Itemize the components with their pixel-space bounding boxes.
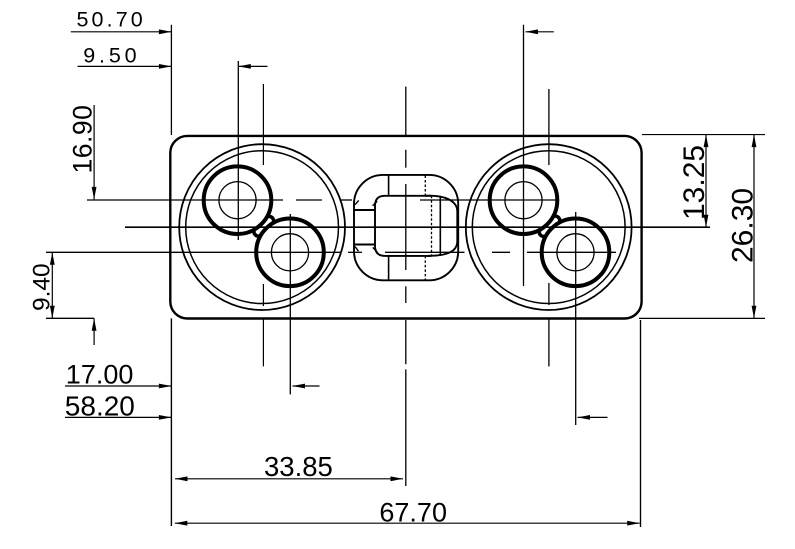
- svg-text:50.70: 50.70: [77, 8, 146, 32]
- connector inner rounded rectangle: [375, 196, 432, 256]
- extension line hole top-left x=238.3: [237, 61, 239, 240]
- part outline: [170, 136, 641, 319]
- connector outer squircle: [354, 175, 458, 280]
- right bore inner ring: [472, 151, 625, 304]
- svg-text:67.70: 67.70: [379, 497, 447, 527]
- dimension 67.70 line: [175, 522, 640, 524]
- hole top-left inner circle: [219, 182, 256, 219]
- dimension 9.40 line: [51, 252, 53, 318]
- extension line part bottom edge right y=318.4: [639, 317, 765, 319]
- extension line part right edge x=640.5: [640, 320, 642, 527]
- connector inner rectangle right edge hidden: [431, 196, 433, 256]
- hole bottom-left inner circle: [271, 234, 308, 271]
- dimension 16.90 line: [93, 105, 95, 345]
- connector divider line x=388.6 bottom: [388, 256, 390, 280]
- hole top-right bold circle: [490, 166, 558, 234]
- connector notch chamfer bottom-right: [373, 247, 378, 252]
- connector left notch bottom line: [354, 244, 375, 246]
- extension line part bottom edge left y=318.3: [46, 317, 94, 319]
- svg-text:13.25: 13.25: [678, 145, 711, 220]
- svg-text:9.50: 9.50: [83, 43, 140, 67]
- dimension 9.50 line: [78, 65, 268, 67]
- connector right lobe: [425, 196, 457, 256]
- centerline horizontal bottom holes y=252.3: [46, 251, 616, 253]
- svg-text:16.90: 16.90: [67, 105, 97, 174]
- web fillet right pair: [539, 216, 559, 236]
- hole top-right inner circle: [505, 182, 542, 219]
- connector left notch top line: [354, 209, 375, 211]
- extension line hole bottom-right x=575.7: [575, 212, 577, 425]
- connector lobe inner divider x=440.3: [439, 196, 441, 256]
- connector divider line x=425.3 bottom: [424, 256, 426, 280]
- centerline vertical right bore x=548.9: [548, 89, 550, 366]
- extension line hole top-right x=523.5: [523, 25, 525, 286]
- hole top-left bold circle: [204, 166, 272, 234]
- left bore inner ring: [186, 151, 339, 304]
- svg-text:33.85: 33.85: [264, 451, 333, 482]
- hole bottom-right bold circle: [542, 219, 610, 287]
- dimension 26.30 line: [753, 135, 755, 319]
- connector divider line x=425.3 top: [424, 176, 426, 196]
- svg-text:17.00: 17.00: [66, 359, 134, 389]
- extension line part left edge x=171.4: [170, 25, 172, 526]
- connector notch chamfer top-right: [373, 201, 378, 205]
- connector notch chamfer bottom-left: [355, 247, 359, 252]
- dimension 17.00 line: [65, 385, 320, 387]
- connector divider line x=388.6 top: [388, 176, 390, 196]
- connector notch chamfer top-left: [355, 200, 359, 204]
- centerline horizontal top holes y=200: [87, 199, 557, 201]
- centerline vertical part middle x=405.8: [405, 87, 407, 486]
- dimension 13.25 line: [705, 135, 707, 228]
- extension line hole bottom-left x=290.3: [289, 214, 291, 394]
- web fillet left pair: [254, 216, 274, 236]
- hole bottom-right inner circle: [557, 234, 594, 271]
- dimension 33.85 line: [175, 478, 403, 480]
- centerline vertical left bore x=263.4: [262, 84, 264, 366]
- dimension 58.20 line: [65, 416, 608, 418]
- svg-text:26.30: 26.30: [727, 188, 760, 263]
- svg-text:58.20: 58.20: [65, 391, 135, 422]
- hole bottom-left bold circle: [256, 219, 324, 287]
- left bore outer circle: [179, 144, 345, 310]
- svg-text:9.40: 9.40: [28, 263, 55, 311]
- extension line part top edge right y=134.6: [642, 134, 765, 136]
- right bore outer circle: [466, 144, 632, 310]
- dimension 50.70 line: [71, 31, 554, 33]
- centerline horizontal part middle y=227.2: [125, 226, 710, 228]
